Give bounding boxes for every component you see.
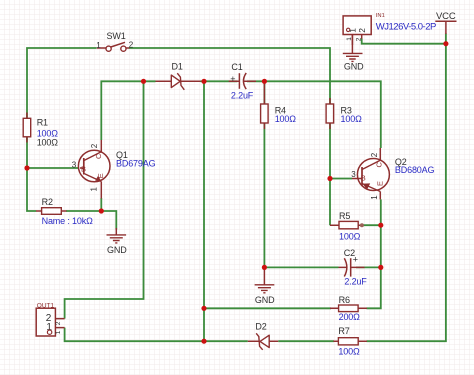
ground under IN1 [343,35,364,72]
svg-text:SW1: SW1 [107,31,126,41]
svg-text:B: B [361,173,366,182]
junction at D1 cathode net / OUT1 pin2 [141,79,146,84]
wire C2 row left [264,266,338,268]
junction at bottom rail / x=204 [201,339,206,344]
junction at Q1 emitter / R2 [99,208,104,213]
wire net from D1 junction down-left to OUT1 pin2 [65,81,144,318]
wire bottom rail D2 to R7 [278,340,334,342]
power flag VCC [435,11,456,34]
wire R5 right to Q2 emitter line [364,224,381,226]
wire Q1 base from R1 line [27,167,80,169]
svg-text:1: 1 [347,28,357,33]
wire R6 row left to x=204 junction [204,307,331,309]
wire bus between D1 and C1 [201,80,238,82]
connector IN1 WJ126V-5.0-2P [343,13,436,45]
junction at R5 / Q2 emitter [378,223,383,228]
svg-text:E: E [376,181,385,186]
svg-text:2: 2 [370,152,379,157]
svg-text:R2: R2 [42,197,53,207]
svg-text:D2: D2 [255,321,266,331]
svg-text:2: 2 [55,321,62,325]
svg-text:2: 2 [129,41,134,50]
junction at C2 right / Q2 emitter line [378,265,383,270]
wire Q2 base from R3 junction [330,178,352,180]
svg-text:1: 1 [90,187,99,192]
transistor Q2 [351,148,434,200]
svg-text:GND: GND [255,295,275,305]
svg-text:BD680AG: BD680AG [395,165,435,175]
svg-text:200Ω: 200Ω [339,312,361,322]
ground at C2 left / R4 net [255,267,276,305]
junction at R3 / Q2 base [327,176,332,181]
resistor R6 [330,295,367,322]
svg-text:WJ126V-5.0-2P: WJ126V-5.0-2P [376,22,436,33]
svg-text:3: 3 [351,170,356,179]
svg-text:B: B [81,165,86,174]
ground at R2/Q1 emitter net [107,228,128,255]
wire IN1 pin2 to VCC junction [362,39,446,44]
svg-text:2.2uF: 2.2uF [344,277,367,287]
junction at C2 left / GND [262,265,267,270]
svg-text:2: 2 [356,37,363,41]
transistor Q1 [72,140,156,199]
svg-text:R5: R5 [339,211,350,221]
svg-text:1: 1 [55,330,62,334]
svg-text:100Ω: 100Ω [339,232,361,242]
svg-text:GND: GND [344,61,364,71]
resistor R7 [333,326,367,357]
wire Q1 emitter to R2 junction [100,198,102,211]
resistor R5 [330,211,364,242]
wire top rail right from SW1 to x=330 corner down through R3 to R5 corner [129,48,330,225]
wire OUT1 pin1 down to bottom rail toward D2 [65,328,248,342]
svg-text:2: 2 [90,143,99,148]
junction at VCC / IN1 pin2 [443,41,448,46]
svg-text:Name : 10kΩ: Name : 10kΩ [42,216,94,226]
wire R4 run x=264.4 [263,81,265,267]
junction at D1 anode / x=204 [201,79,206,84]
svg-text:R1: R1 [37,117,48,127]
switch SW1 [96,31,134,51]
connector OUT1 [36,302,64,336]
svg-text:GND: GND [107,245,127,255]
svg-text:2: 2 [357,28,367,33]
wire R2 right to GND corner [66,211,116,230]
junction at R1 / Q1 base [24,165,29,170]
resistor R3 [326,98,362,129]
svg-text:C2: C2 [344,248,355,258]
wire long middle vertical x=204 [203,81,205,341]
svg-text:D1: D1 [172,62,183,72]
wire bottom rail right corner up VCC line [367,34,446,342]
wire Q2 emitter down to R6 corner [367,199,381,308]
resistor R4 [261,83,297,129]
resistor R1 [23,113,58,148]
diode D2 (zener) [248,321,278,349]
wire bus corner at x=101 down to Q1 collector [101,81,155,140]
junction at C1 right / R4 top [262,79,267,84]
svg-text:E: E [96,173,105,178]
junction at R6 row / x=204 [201,306,206,311]
svg-text:IN1: IN1 [376,13,385,19]
svg-text:VCC: VCC [436,11,456,22]
svg-text:100Ω: 100Ω [338,346,360,356]
svg-text:R6: R6 [339,295,350,305]
wire top rail left + R1 run + corner to R2 [27,48,97,211]
svg-text:OUT1: OUT1 [37,302,55,309]
wire C2 row right [356,266,381,268]
svg-text:R7: R7 [338,326,349,336]
svg-text:100Ω: 100Ω [275,114,297,124]
svg-text:1: 1 [96,41,101,50]
svg-text:BD679AG: BD679AG [116,159,156,169]
capacitor C2 [339,248,368,286]
resistor R2 [36,197,93,226]
svg-text:C1: C1 [231,62,242,72]
svg-text:1: 1 [370,195,379,200]
svg-text:+: + [230,74,235,84]
capacitor C1 [229,62,256,100]
svg-text:100Ω: 100Ω [37,137,59,147]
svg-text:C: C [375,162,384,168]
wire bus from C1 right to x=380.8 corner down to Q2 collector [247,81,381,148]
svg-text:2.2uF: 2.2uF [231,90,254,100]
diode D1 (zener) [156,62,201,90]
svg-text:C: C [94,153,103,159]
svg-text:100Ω: 100Ω [341,114,363,124]
svg-text:3: 3 [72,160,77,169]
